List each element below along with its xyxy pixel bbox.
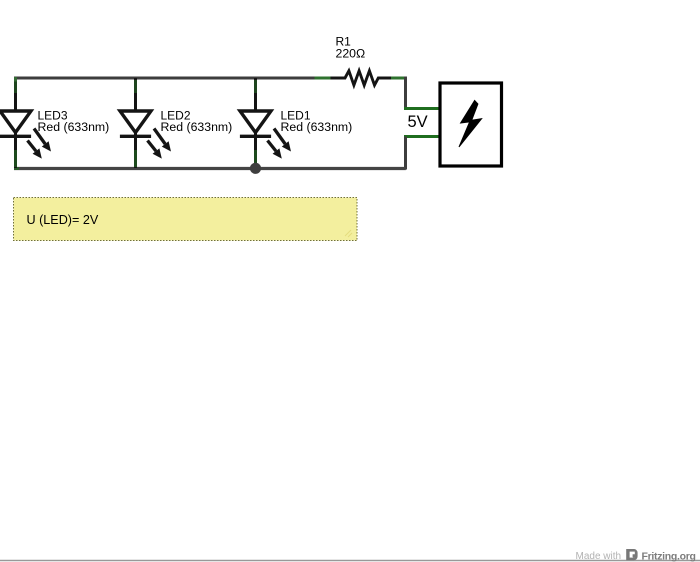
LED LED2 bottom pin wire <box>134 133 137 169</box>
footer separator line <box>0 560 700 562</box>
lightning bolt icon <box>459 101 482 148</box>
power supply plus pin (5V) <box>404 107 440 110</box>
svg-text:U (LED)= 2V: U (LED)= 2V <box>27 213 99 227</box>
svg-text:Red (633nm): Red (633nm) <box>281 120 353 134</box>
light arrow 2 of LED1 <box>268 141 282 159</box>
LED LED1 bottom pin wire <box>254 133 257 169</box>
LED LED3 top pin wire <box>14 78 17 113</box>
power supply minus pin (GND) <box>404 135 440 138</box>
svg-text:5V: 5V <box>408 113 428 131</box>
note box <box>14 198 358 241</box>
light arrow 2 of LED3 <box>28 141 42 159</box>
wire: bottom rail <box>14 167 406 170</box>
cathode bar LED3 <box>0 135 31 138</box>
diode triangle LED1 <box>240 111 271 133</box>
LED LED2 top pin wire <box>134 78 137 113</box>
diode triangle LED3 <box>0 111 31 133</box>
resistor R1 right pin <box>391 77 407 80</box>
svg-text:Made with: Made with <box>576 551 622 562</box>
svg-text:Red (633nm): Red (633nm) <box>38 120 110 134</box>
Fritzing logo icon <box>626 549 637 560</box>
wire: right drop from resistor to power plus pin <box>406 78 407 109</box>
light arrow 1 of LED3 <box>34 129 51 152</box>
power supply U1 box <box>440 83 502 166</box>
node: bottom-left corner joint <box>16 165 20 169</box>
light arrow 1 of LED1 <box>274 129 291 152</box>
light arrow 1 of LED2 <box>154 129 171 152</box>
junction node dot <box>250 163 261 174</box>
diode triangle LED2 <box>120 111 151 133</box>
cathode bar LED2 <box>120 135 151 138</box>
svg-text:Fritzing.org: Fritzing.org <box>642 551 696 562</box>
node: top-left corner joint <box>14 77 17 82</box>
LED LED3 bottom pin wire <box>14 133 17 169</box>
LED LED1 top pin wire <box>254 78 257 113</box>
wire: top rail from LED3 to resistor R1 <box>14 77 316 80</box>
cathode bar LED1 <box>240 135 271 138</box>
resistor R1 body <box>331 71 393 85</box>
wire: right drop from minus pin to bottom rail <box>404 137 407 170</box>
svg-text:Red (633nm): Red (633nm) <box>161 120 233 134</box>
light arrow 2 of LED2 <box>148 141 162 159</box>
resistor R1 left pin <box>315 77 333 80</box>
svg-text:220Ω: 220Ω <box>336 47 366 61</box>
